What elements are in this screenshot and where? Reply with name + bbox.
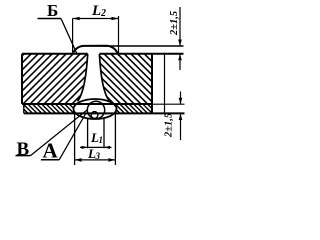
L2 right extension (118, 16, 120, 56)
svg-text:L: L (91, 3, 101, 19)
top right dim 2+-1,5: upper segment with down arrow (179, 7, 181, 46)
right plate hatched fill (42, 52, 203, 106)
weld stem right line (99, 54, 109, 102)
L1 dim line with outside arrows (80, 146, 112, 148)
bottom right dim: upper segment (180, 92, 182, 105)
L3 dim line (75, 159, 116, 161)
dimension L3 extensions (74, 112, 76, 165)
dimension L1 extensions (87, 118, 89, 148)
left plate left edge (21, 54, 23, 104)
plate top line left (22, 53, 88, 55)
B leader (61, 19, 77, 55)
svg-text:3: 3 (95, 151, 101, 161)
svg-text:2: 2 (100, 8, 106, 19)
backing strip hatched fill right (14, 104, 162, 114)
svg-text:А: А (43, 139, 59, 163)
L2 right arrow (112, 17, 119, 21)
inner circle of root bead (87, 101, 104, 118)
right plate right edge (151, 54, 153, 114)
svg-text:В: В (17, 139, 30, 160)
L2 left extension (72, 19, 74, 53)
left plate hatched fill (0, 52, 173, 105)
dimension L2: line (73, 18, 119, 20)
svg-text:Б: Б (47, 1, 58, 20)
svg-text:2±1,5: 2±1,5 (169, 11, 180, 36)
weld stem left line (78, 54, 88, 101)
L2 left arrow (73, 17, 80, 21)
weld cap outline (73, 46, 119, 54)
strip bottom line + extension (24, 112, 185, 114)
bottom right dim lower segment (180, 114, 182, 141)
B underline (38, 18, 62, 20)
A leader (59, 113, 86, 160)
svg-text:2±1,5: 2±1,5 (164, 113, 175, 138)
bottom extension of plate bottom line (152, 103, 185, 105)
weld root bead white + outline (74, 99, 117, 119)
V leader (31, 110, 88, 156)
plate top line right + extension (99, 53, 183, 55)
small droplet at bead bottom (91, 112, 98, 119)
svg-text:1: 1 (99, 135, 104, 145)
plate bottom line (22, 103, 152, 105)
lower segment with up arrow (179, 54, 181, 70)
auxiliary vertical line at plate end face (164, 54, 166, 112)
strip left edge (23, 105, 25, 114)
backing strip hatched fill left (14, 104, 162, 114)
cap top extension line (103, 45, 184, 47)
